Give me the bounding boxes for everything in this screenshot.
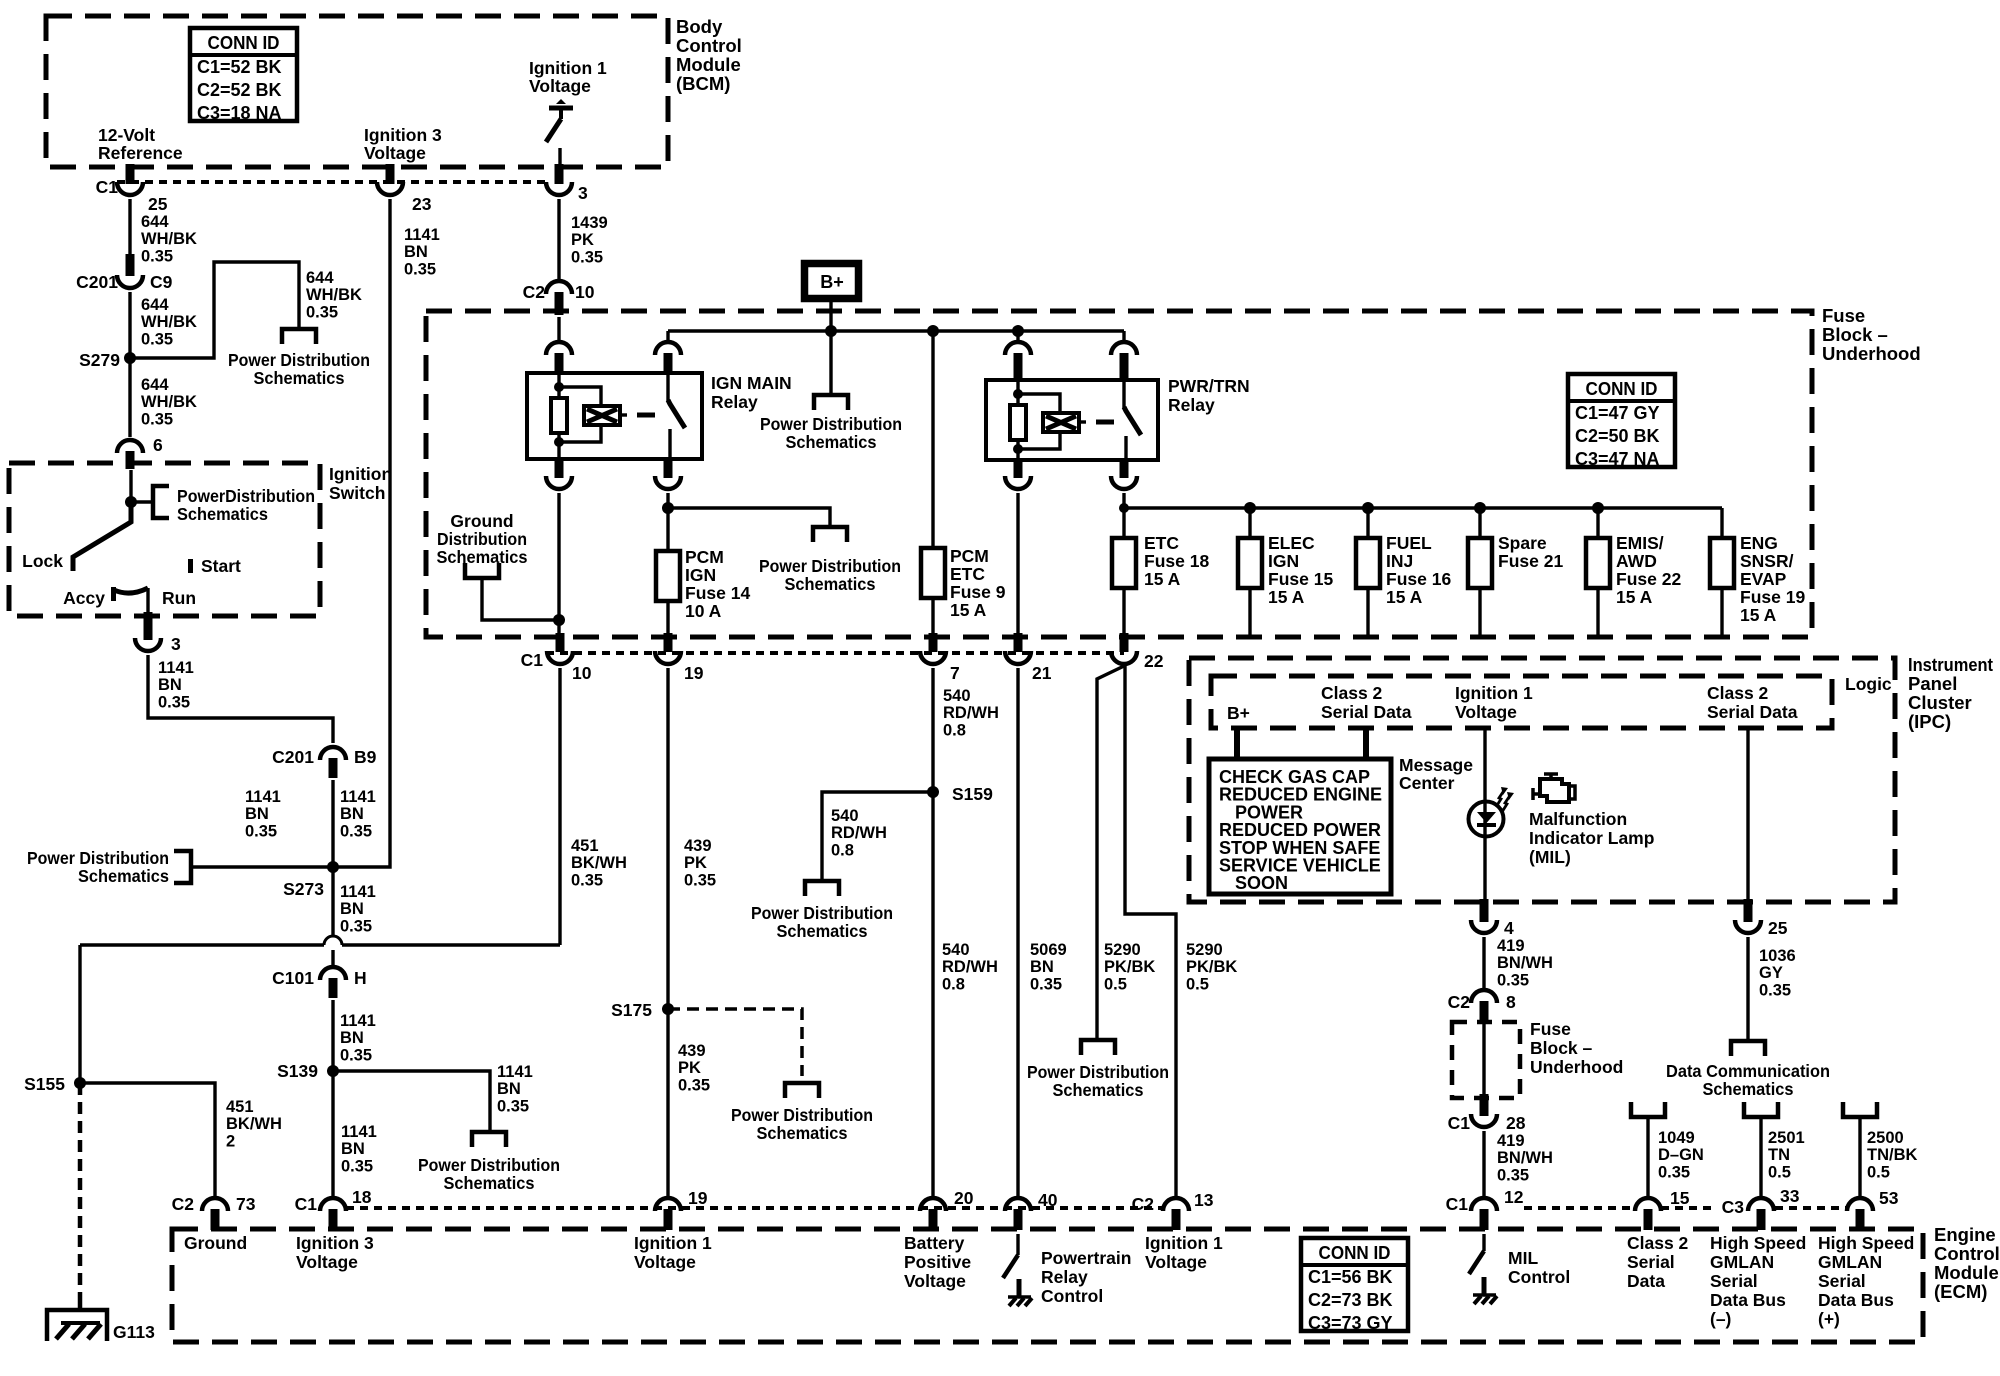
svg-text:Control: Control — [1934, 1243, 2000, 1264]
svg-text:Fuse: Fuse — [1822, 305, 1865, 326]
off-page reference power distribution (B+) — [814, 395, 848, 410]
svg-text:0.35: 0.35 — [340, 1046, 372, 1064]
svg-text:Malfunction: Malfunction — [1529, 809, 1627, 829]
off-page reference power distribution (fuse block) — [813, 527, 847, 542]
svg-text:Engine: Engine — [1934, 1224, 1996, 1245]
svg-text:C201: C201 — [76, 272, 118, 292]
label Powertrain Relay Control — [1041, 1248, 1131, 1306]
svg-text:13: 13 — [1194, 1190, 1214, 1210]
svg-text:BN/WH: BN/WH — [1497, 954, 1553, 972]
label ETC Fuse 18 15 A — [1144, 533, 1209, 589]
label 419 BN/WH 0.35 (lower) — [1497, 1132, 1553, 1184]
junction dot ELEC IGN tap — [1244, 502, 1256, 514]
wire fuse 14 to pin 19 — [666, 601, 669, 634]
svg-text:Serial Data: Serial Data — [1707, 702, 1798, 722]
svg-text:1049: 1049 — [1658, 1129, 1695, 1147]
splice S273 — [283, 861, 339, 899]
svg-text:C1=47 GY: C1=47 GY — [1575, 403, 1660, 423]
svg-text:SNSR/: SNSR/ — [1740, 551, 1794, 571]
svg-text:Schematics: Schematics — [444, 1173, 535, 1193]
label 1141 BN 0.35 (S273 left) — [245, 788, 281, 840]
svg-text:Body: Body — [676, 16, 723, 37]
label Class 2 Serial Data (IPC left) — [1321, 683, 1412, 722]
svg-text:AWD: AWD — [1616, 551, 1657, 571]
label MIL Control — [1508, 1248, 1570, 1287]
svg-text:C2: C2 — [172, 1194, 195, 1214]
svg-text:(–): (–) — [1710, 1309, 1731, 1329]
svg-text:7: 7 — [950, 663, 960, 683]
junction dot ignition switch — [125, 496, 137, 508]
connector pin 25 (IPC bottom) — [1735, 899, 1788, 938]
svg-text:Panel: Panel — [1908, 673, 1957, 694]
svg-text:1141: 1141 — [341, 1123, 377, 1141]
label Class 2 Serial Data (IPC right) — [1707, 683, 1798, 722]
svg-text:C1=56 BK: C1=56 BK — [1308, 1267, 1393, 1287]
svg-text:Relay: Relay — [1168, 395, 1215, 415]
svg-text:15: 15 — [1670, 1188, 1690, 1208]
svg-text:Distribution: Distribution — [437, 529, 527, 549]
svg-text:Voltage: Voltage — [1455, 702, 1517, 722]
wire ENG SNSR fuse down — [1720, 588, 1723, 636]
svg-text:0.35: 0.35 — [340, 822, 372, 840]
svg-text:Ignition: Ignition — [329, 464, 392, 484]
CONN ID table ECM — [1301, 1238, 1408, 1333]
svg-text:0.35: 0.35 — [141, 330, 173, 348]
svg-text:ETC: ETC — [950, 564, 985, 584]
svg-text:0.35: 0.35 — [684, 871, 716, 889]
label 1141 BN 0.35 (pin 23) — [404, 226, 440, 278]
label Instrument Panel Cluster (IPC) — [1908, 654, 1993, 732]
label 540 RD/WH 0.8 (upper) — [943, 687, 999, 739]
off-page reference high speed GMLAN plus (to pin 53) — [1843, 1102, 1877, 1117]
svg-text:0.8: 0.8 — [943, 721, 966, 739]
label 5290 PK/BK 0.5 (right) — [1186, 941, 1237, 993]
connector pin 20 (ECM) — [920, 1188, 974, 1230]
power feed B+ box — [805, 264, 859, 299]
label ENG SNSR/EVAP Fuse 19 15 A — [1740, 533, 1805, 625]
svg-text:MIL: MIL — [1508, 1248, 1538, 1268]
svg-text:ELEC: ELEC — [1268, 533, 1315, 553]
svg-text:73: 73 — [236, 1194, 256, 1214]
svg-text:25: 25 — [148, 194, 168, 214]
svg-text:Data Communication: Data Communication — [1666, 1061, 1830, 1081]
label 419 BN/WH 0.35 (upper) — [1497, 937, 1553, 989]
svg-text:0.35: 0.35 — [1759, 981, 1791, 999]
svg-text:451: 451 — [571, 837, 599, 855]
switch BCM ignition 1 voltage driver — [546, 99, 573, 167]
svg-text:C2: C2 — [1448, 992, 1471, 1012]
relay socket arc IGN MAIN switch top — [655, 342, 681, 375]
svg-text:Control: Control — [1041, 1286, 1103, 1306]
label Start — [201, 556, 241, 576]
svg-text:Serial: Serial — [1627, 1252, 1675, 1272]
connector C201 C9 — [76, 254, 172, 292]
svg-text:(+): (+) — [1818, 1309, 1840, 1329]
label Ground (ECM) — [184, 1233, 247, 1253]
svg-text:4: 4 — [1504, 918, 1514, 938]
svg-text:BN: BN — [340, 900, 364, 918]
svg-text:Underhood: Underhood — [1822, 343, 1921, 364]
label Power Distribution Schematics (5290) — [1027, 1062, 1169, 1100]
bus B+ horizontal (fuse block) — [668, 329, 1124, 332]
module box Engine Control Module (ECM) — [172, 1229, 1923, 1342]
label Power Distribution Schematics (fuse block) — [759, 556, 901, 594]
svg-text:B+: B+ — [1227, 703, 1250, 723]
switch blade to Lock — [73, 502, 131, 571]
svg-text:3: 3 — [171, 634, 181, 654]
svg-text:BN: BN — [158, 676, 182, 694]
wire 644 WH/BK from C9 to S279 — [128, 292, 131, 358]
contact tick Accy — [111, 587, 116, 601]
label 439 PK 0.35 (lower) — [678, 1042, 710, 1094]
svg-text:WH/BK: WH/BK — [141, 393, 197, 411]
svg-text:540: 540 — [942, 941, 970, 959]
wire bus to fuse 9 — [931, 331, 934, 548]
svg-text:BN: BN — [497, 1080, 521, 1098]
svg-text:15 A: 15 A — [1740, 605, 1777, 625]
svg-text:Data Bus: Data Bus — [1818, 1290, 1894, 1310]
off-page reference power distribution (ignition switch) — [153, 486, 169, 518]
wire 1141 BN pin 23 to S273 — [333, 199, 390, 867]
svg-text:Power Distribution: Power Distribution — [751, 903, 893, 923]
wire bus to FUEL INJ fuse — [1366, 508, 1369, 538]
svg-text:Indicator Lamp: Indicator Lamp — [1529, 828, 1654, 848]
relay socket arc IGN MAIN switch bottom — [655, 457, 681, 489]
wire S273 to power distribution ref — [192, 865, 333, 868]
svg-text:Schematics: Schematics — [1703, 1079, 1794, 1099]
svg-text:INJ: INJ — [1386, 551, 1413, 571]
svg-text:Power Distribution: Power Distribution — [418, 1155, 560, 1175]
wire 2500 TN/BK to ECM pin 53 — [1858, 1117, 1861, 1196]
connector C2 pin 73 (ECM) — [172, 1194, 256, 1230]
svg-text:1141: 1141 — [340, 788, 376, 806]
svg-text:GMLAN: GMLAN — [1818, 1252, 1882, 1272]
svg-text:0.35: 0.35 — [1497, 971, 1529, 989]
svg-text:Fuse 16: Fuse 16 — [1386, 569, 1451, 589]
label 5290 PK/BK 0.5 (left) — [1104, 941, 1155, 993]
wire bus corner to PWR/TRN switch top — [1122, 331, 1125, 340]
wire EMIS/AWD fuse down — [1596, 588, 1599, 636]
connector pin 22 (fuse block bottom) — [1111, 633, 1164, 671]
wire 1439 PK BCM pin 3 to C2 pin 10 — [557, 199, 560, 279]
svg-text:C1: C1 — [1446, 1194, 1469, 1214]
svg-text:439: 439 — [684, 837, 712, 855]
svg-text:Power Distribution: Power Distribution — [760, 414, 902, 434]
svg-text:RD/WH: RD/WH — [831, 824, 887, 842]
relay socket arc PWR/TRN switch top — [1111, 342, 1137, 382]
svg-text:Accy: Accy — [63, 588, 105, 608]
svg-text:BK/WH: BK/WH — [226, 1115, 282, 1133]
svg-text:Serial Data: Serial Data — [1321, 702, 1412, 722]
splice S139 — [277, 1061, 339, 1081]
fuse ELEC IGN Fuse 15 15 A — [1238, 538, 1262, 588]
module box Ignition Switch — [9, 463, 320, 616]
ground powertrain relay control — [1008, 1279, 1032, 1306]
svg-text:1439: 1439 — [571, 214, 608, 232]
wire IGN MAIN switch out — [666, 493, 669, 551]
svg-text:PCM: PCM — [950, 546, 989, 566]
wire B+ to bus — [829, 301, 832, 331]
CONN ID table BCM — [190, 28, 297, 123]
wire 644 WH/BK branch from S279 to power distribution — [130, 262, 299, 358]
pass-through box fuse block underhood — [1452, 1022, 1520, 1098]
svg-text:10 A: 10 A — [685, 601, 722, 621]
label Run — [162, 588, 196, 608]
svg-text:WH/BK: WH/BK — [306, 286, 362, 304]
label EMIS/AWD Fuse 22 15 A — [1616, 533, 1681, 607]
label PCM ETC Fuse 9 15 A — [950, 546, 1006, 620]
svg-text:GMLAN: GMLAN — [1710, 1252, 1774, 1272]
svg-text:BK/WH: BK/WH — [571, 854, 627, 872]
svg-text:Ignition 1: Ignition 1 — [634, 1233, 712, 1253]
wire 419 BN/WH C1 28 to ECM pin 12 — [1482, 1131, 1485, 1196]
svg-text:Ignition 3: Ignition 3 — [296, 1233, 374, 1253]
connector C2 pin 8 (fuse block) — [1448, 990, 1516, 1024]
svg-text:0.35: 0.35 — [1497, 1166, 1529, 1184]
svg-text:C201: C201 — [272, 747, 314, 767]
svg-text:WH/BK: WH/BK — [141, 313, 197, 331]
label Ignition Switch — [329, 464, 392, 503]
svg-text:15 A: 15 A — [1386, 587, 1423, 607]
label 1141 BN 0.35 (below B9) — [340, 788, 376, 840]
label Logic — [1845, 674, 1892, 694]
wire 1141 BN S139 to ECM pin 18 — [331, 1071, 334, 1196]
svg-text:TN: TN — [1768, 1146, 1790, 1164]
label BCM — [676, 16, 742, 94]
label 439 PK 0.35 (upper) — [684, 837, 716, 889]
wire through pass-through box — [1482, 1024, 1485, 1094]
label PWR/TRN Relay — [1168, 376, 1250, 415]
svg-text:RD/WH: RD/WH — [942, 958, 998, 976]
svg-text:Block –: Block – — [1822, 324, 1888, 345]
svg-text:Schematics: Schematics — [786, 432, 877, 452]
connector C201 B9 — [272, 747, 376, 778]
connector face dotted line ECM left — [346, 1206, 1162, 1210]
connector pin 6 (ignition switch) — [117, 435, 163, 469]
label 451 BK/WH 2 — [226, 1098, 282, 1150]
junction dot PWR/TRN coil tap — [1012, 325, 1024, 337]
svg-text:C2=50 BK: C2=50 BK — [1575, 426, 1660, 446]
label PCM IGN Fuse 14 10 A — [685, 547, 750, 621]
svg-text:IGN MAIN: IGN MAIN — [711, 373, 792, 393]
wire bus to ELEC IGN fuse — [1248, 508, 1251, 538]
svg-text:20: 20 — [954, 1188, 974, 1208]
svg-text:H: H — [354, 968, 367, 988]
svg-text:Battery: Battery — [904, 1233, 965, 1253]
svg-text:Run: Run — [162, 588, 196, 608]
svg-text:CONN ID: CONN ID — [1319, 1243, 1391, 1263]
connector face dotted line fuse block bottom — [546, 651, 1124, 655]
junction dot coil return — [553, 614, 565, 626]
connector C3 pin 33 (ECM) — [1722, 1186, 1800, 1230]
svg-text:Relay: Relay — [1041, 1267, 1088, 1287]
label 644 WH/BK 0.35 (branch) — [306, 269, 362, 321]
wire C2 pin 10 to IGN MAIN relay coil — [557, 317, 560, 340]
svg-text:Powertrain: Powertrain — [1041, 1248, 1131, 1268]
svg-text:0.35: 0.35 — [1658, 1163, 1690, 1181]
svg-text:Voltage: Voltage — [296, 1252, 358, 1272]
svg-text:Positive: Positive — [904, 1252, 971, 1272]
svg-text:PWR/TRN: PWR/TRN — [1168, 376, 1250, 396]
connector pin 15 (ECM) — [1635, 1188, 1690, 1230]
wire 1141 BN branch S139 to power distribution — [333, 1071, 490, 1131]
label Power Distribution Schematics (S139 branch) — [418, 1155, 560, 1193]
svg-text:S279: S279 — [79, 350, 120, 370]
label 2500 TN/BK 0.5 — [1867, 1129, 1917, 1181]
fuse ETC Fuse 18 15 A — [1112, 538, 1136, 588]
label 1141 BN 0.35 (below S273) — [340, 883, 376, 935]
svg-text:WH/BK: WH/BK — [141, 230, 197, 248]
fuse Spare Fuse 21 — [1468, 538, 1492, 588]
label Engine Control Module (ECM) — [1934, 1224, 2000, 1302]
svg-text:Serial: Serial — [1818, 1271, 1866, 1291]
svg-text:C1: C1 — [1448, 1113, 1471, 1133]
connector face dotted line BCM — [117, 180, 546, 184]
off-page reference power distribution (S175) — [785, 1083, 819, 1098]
label Power Distribution Schematics (S159) — [751, 903, 893, 941]
label Ignition 1 Voltage (ECM pin 13) — [1145, 1233, 1223, 1272]
label FUEL INJ Fuse 16 15 A — [1386, 533, 1451, 607]
label 644 WH/BK 0.35 (pin 25) — [141, 213, 197, 265]
svg-text:Voltage: Voltage — [904, 1271, 966, 1291]
relay socket arc PWR/TRN coil bottom — [1005, 460, 1031, 489]
wire ETC fuse to pin 22 — [1122, 588, 1125, 634]
label 451 BK/WH 0.35 — [571, 837, 627, 889]
svg-text:0.35: 0.35 — [571, 871, 603, 889]
splice S159 — [927, 784, 993, 804]
svg-text:ENG: ENG — [1740, 533, 1778, 553]
junction dot bus-ETC — [1119, 503, 1129, 513]
connector pin 4 (IPC bottom) — [1471, 899, 1514, 938]
wire bus to EMIS/AWD fuse — [1596, 508, 1599, 538]
off-page reference high speed GMLAN minus (to pin 33) — [1744, 1102, 1778, 1117]
connector pin 3 (BCM) — [546, 164, 588, 203]
module box Fuse Block - Underhood — [426, 311, 1812, 637]
wire class 2 to message center — [1363, 730, 1369, 760]
svg-text:Start: Start — [201, 556, 241, 576]
connector pin 19 (ECM) — [655, 1188, 708, 1230]
switch MIL control driver — [1469, 1234, 1484, 1274]
svg-text:Underhood: Underhood — [1530, 1057, 1623, 1077]
svg-text:FUEL: FUEL — [1386, 533, 1432, 553]
logic box (IPC) — [1211, 676, 1832, 728]
svg-text:(BCM): (BCM) — [676, 73, 730, 94]
wire 1049 D-GN to ECM pin 15 — [1646, 1117, 1649, 1196]
svg-text:(IPC): (IPC) — [1908, 711, 1951, 732]
svg-text:Spare: Spare — [1498, 533, 1547, 553]
svg-text:Schematics: Schematics — [254, 368, 345, 388]
svg-text:644: 644 — [141, 213, 169, 231]
label PowerDistribution Schematics (ignition switch) — [177, 486, 315, 524]
label Message Center — [1399, 755, 1473, 793]
svg-text:25: 25 — [1768, 918, 1788, 938]
wire Spare fuse down — [1478, 588, 1481, 636]
label Ignition 3 Voltage (BCM) — [364, 125, 442, 163]
svg-text:B9: B9 — [354, 747, 377, 767]
svg-text:Ignition 1: Ignition 1 — [1145, 1233, 1223, 1253]
svg-text:12: 12 — [1504, 1187, 1524, 1207]
fuse EMIS/AWD Fuse 22 15 A — [1586, 538, 1610, 588]
wire bus to IGN MAIN switch top — [666, 331, 669, 340]
svg-text:0.35: 0.35 — [340, 917, 372, 935]
svg-text:Schematics: Schematics — [437, 547, 528, 567]
svg-text:5290: 5290 — [1186, 941, 1223, 959]
svg-text:PK: PK — [571, 231, 594, 249]
label Spare Fuse 21 — [1498, 533, 1563, 571]
off-page reference power distribution (S139 branch) — [472, 1132, 506, 1147]
off-page reference power distribution (S273) — [174, 851, 191, 883]
svg-text:6: 6 — [153, 435, 163, 455]
wire B+ ref drop — [829, 331, 832, 394]
label Ignition 1 Voltage (BCM) — [529, 58, 607, 96]
svg-text:C3: C3 — [1722, 1197, 1745, 1217]
svg-text:12-Volt: 12-Volt — [98, 125, 155, 145]
svg-text:5290: 5290 — [1104, 941, 1141, 959]
label Ground Distribution Schematics — [437, 511, 528, 567]
wire 1141 BN C101 to S139 — [331, 1000, 334, 1071]
svg-text:Reference: Reference — [98, 143, 183, 163]
label Battery Positive Voltage (ECM) — [904, 1233, 971, 1291]
svg-text:1141: 1141 — [340, 1012, 376, 1030]
splice S175 — [611, 1000, 674, 1020]
svg-text:0.35: 0.35 — [245, 822, 277, 840]
wire bus to Spare fuse — [1478, 508, 1481, 538]
wire ground distribution to relay coil return — [482, 578, 559, 620]
wire 540 RD/WH pin 7 to ECM pin 20 — [931, 668, 934, 1196]
svg-text:Center: Center — [1399, 773, 1455, 793]
wire 451 BK/WH down to S155 — [78, 945, 81, 1083]
svg-text:1141: 1141 — [404, 226, 440, 244]
svg-text:1141: 1141 — [340, 883, 376, 901]
svg-text:Fuse 14: Fuse 14 — [685, 583, 750, 603]
label Power Distribution Schematics (S279 branch) — [228, 350, 370, 388]
svg-text:Power Distribution: Power Distribution — [228, 350, 370, 370]
svg-text:PK: PK — [678, 1059, 701, 1077]
svg-text:High Speed: High Speed — [1710, 1233, 1806, 1253]
wire 5069 BN pin 21 to ECM pin 40 — [1016, 668, 1019, 1196]
wire ELEC IGN fuse down — [1248, 588, 1251, 636]
off-page reference ground distribution — [465, 563, 499, 578]
svg-text:0.35: 0.35 — [571, 248, 603, 266]
wire 1141 BN from B9 to S273 — [331, 780, 334, 867]
label 1141 BN 0.35 (below C101) — [340, 1012, 376, 1064]
label 1036 GY 0.35 — [1759, 947, 1796, 999]
svg-text:53: 53 — [1879, 1188, 1899, 1208]
svg-text:Data: Data — [1627, 1271, 1665, 1291]
wire S155 to ECM ground pin — [80, 1083, 215, 1196]
svg-text:10: 10 — [575, 282, 595, 302]
svg-text:S159: S159 — [952, 784, 993, 804]
svg-text:Voltage: Voltage — [634, 1252, 696, 1272]
label B+ (IPC) — [1227, 703, 1250, 723]
label Ignition 1 Voltage (ECM pin 19) — [634, 1233, 712, 1272]
bus PWR/TRN output — [1124, 493, 1722, 538]
wire IGN MAIN coil bottom to pin 10 — [557, 493, 560, 634]
fuse PCM ETC Fuse 9 15 A — [921, 548, 945, 598]
svg-text:D–GN: D–GN — [1658, 1146, 1704, 1164]
svg-text:19: 19 — [688, 1188, 708, 1208]
off-page reference power distribution (S159) — [805, 881, 839, 896]
svg-text:C3=73 GY: C3=73 GY — [1308, 1313, 1393, 1333]
svg-text:Schematics: Schematics — [785, 574, 876, 594]
label 1141 BN 0.35 (S139 branch) — [497, 1063, 533, 1115]
svg-text:21: 21 — [1032, 663, 1052, 683]
svg-text:Instrument: Instrument — [1908, 654, 1993, 675]
svg-text:High Speed: High Speed — [1818, 1233, 1914, 1253]
svg-text:C2=73 BK: C2=73 BK — [1308, 1290, 1393, 1310]
svg-text:Schematics: Schematics — [1053, 1080, 1144, 1100]
svg-text:439: 439 — [678, 1042, 706, 1060]
